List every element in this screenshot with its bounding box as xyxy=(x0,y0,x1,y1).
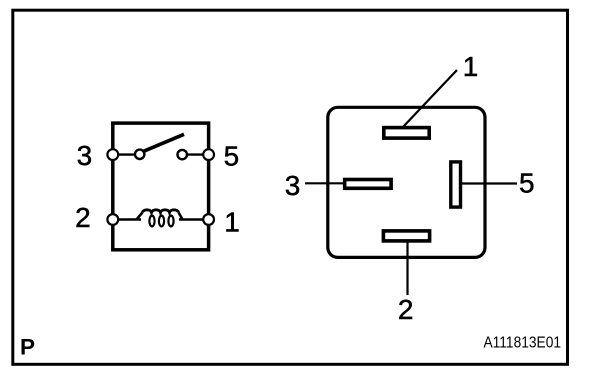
svg-text:A111813E01: A111813E01 xyxy=(484,335,562,352)
svg-text:1: 1 xyxy=(224,206,240,237)
svg-text:5: 5 xyxy=(224,141,240,172)
svg-text:2: 2 xyxy=(75,202,91,233)
svg-text:2: 2 xyxy=(398,294,414,325)
svg-text:1: 1 xyxy=(463,51,479,82)
svg-text:5: 5 xyxy=(519,168,535,199)
svg-text:P: P xyxy=(20,335,35,360)
svg-text:3: 3 xyxy=(77,140,93,171)
svg-text:3: 3 xyxy=(285,170,301,201)
